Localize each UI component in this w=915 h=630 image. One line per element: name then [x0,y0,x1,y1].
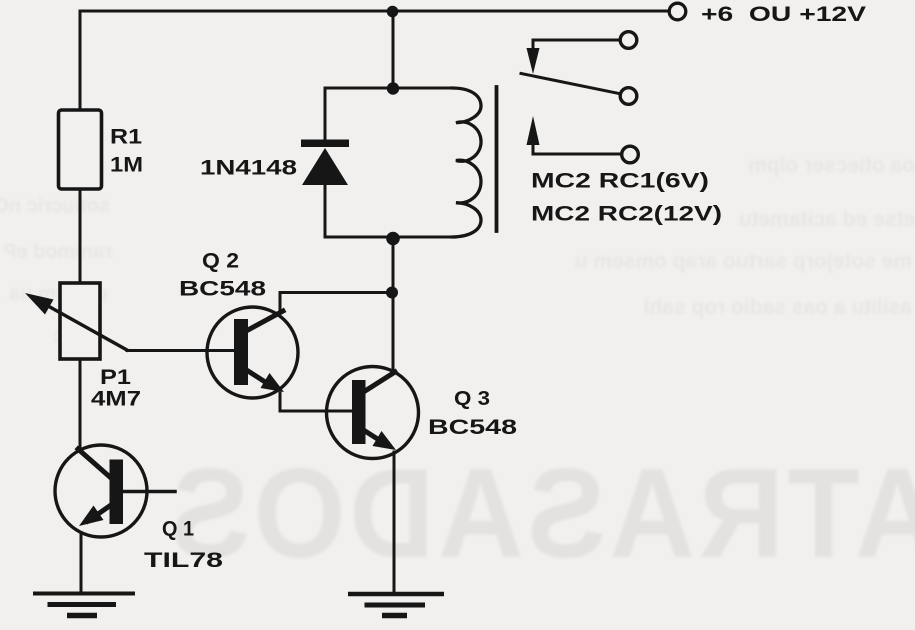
wire left rail upper [79,11,82,110]
wire top rail [80,10,667,13]
supply terminal [669,3,686,20]
node junction loop top [387,82,399,94]
relay contact terminal 1 [533,32,637,49]
node junction top rail [387,6,399,18]
svg-text:BC548: BC548 [428,415,517,439]
svg-text:P1: P1 [100,366,131,389]
ground (left) [33,594,135,616]
wire R1 to P1 [79,189,82,283]
diode 1N4148 [301,88,349,237]
svg-text:asilitu a oas sadio rop sahl: asilitu a oas sadio rop sahl [644,296,912,319]
svg-text:ranimod eP: ranimod eP [3,241,112,263]
wire Q3 emitter to ground [393,452,396,594]
ghost bleed-through layer [0,154,915,584]
svg-text:1N4148: 1N4148 [200,156,297,180]
svg-text:4M7: 4M7 [91,388,141,411]
svg-text:MC2 RC2(12V): MC2 RC2(12V) [531,202,722,226]
relay core bar [495,87,499,231]
potentiometer P1 wiper arrow [25,293,236,351]
transistor Q3 BC548 [327,367,419,459]
potentiometer P1 body [60,283,100,359]
svg-text:etse ed acitametu: etse ed acitametu [739,208,915,231]
svg-text:sotiucric nO: sotiucric nO [0,195,110,217]
resistor R1 [59,110,102,189]
relay contact blade [521,74,637,105]
svg-text:+6 OU +12V: +6 OU +12V [701,2,867,26]
svg-text:me sotejorp sartuo arap omsem: me sotejorp sartuo arap omsem u [575,250,912,273]
svg-text:1M: 1M [110,154,143,177]
transistor Q2 BC548 [207,293,393,412]
wire center rail top [392,11,395,88]
svg-text:TIL78: TIL78 [144,548,223,572]
wire P1 to Q1 [79,359,82,447]
wire Q1 emitter to ground [80,535,83,593]
relay contact actuator arrow down [527,40,540,74]
ground (right) [348,594,444,616]
svg-text:MC2 RC1(6V): MC2 RC1(6V) [531,169,709,193]
node junction Q2 collector [386,287,398,299]
node junction loop bottom [386,232,400,246]
wire center rail to Q3 collector [392,239,395,372]
relay contact actuator arrow up [527,116,639,163]
relay coil K1 [452,88,481,237]
svg-text:ATRASADOS: ATRASADOS [167,442,915,584]
svg-text:BC548: BC548 [179,277,266,301]
svg-text:Q 3: Q 3 [454,388,490,410]
wire loop top [325,87,452,90]
transistor Q1 TIL78 [55,445,175,537]
svg-text:Q 1: Q 1 [162,518,194,541]
svg-text:Q 2: Q 2 [202,250,239,273]
wire loop bottom [325,236,455,239]
svg-text:oa otiecser olpm: oa otiecser olpm [748,154,915,177]
svg-text:R1: R1 [110,126,142,149]
